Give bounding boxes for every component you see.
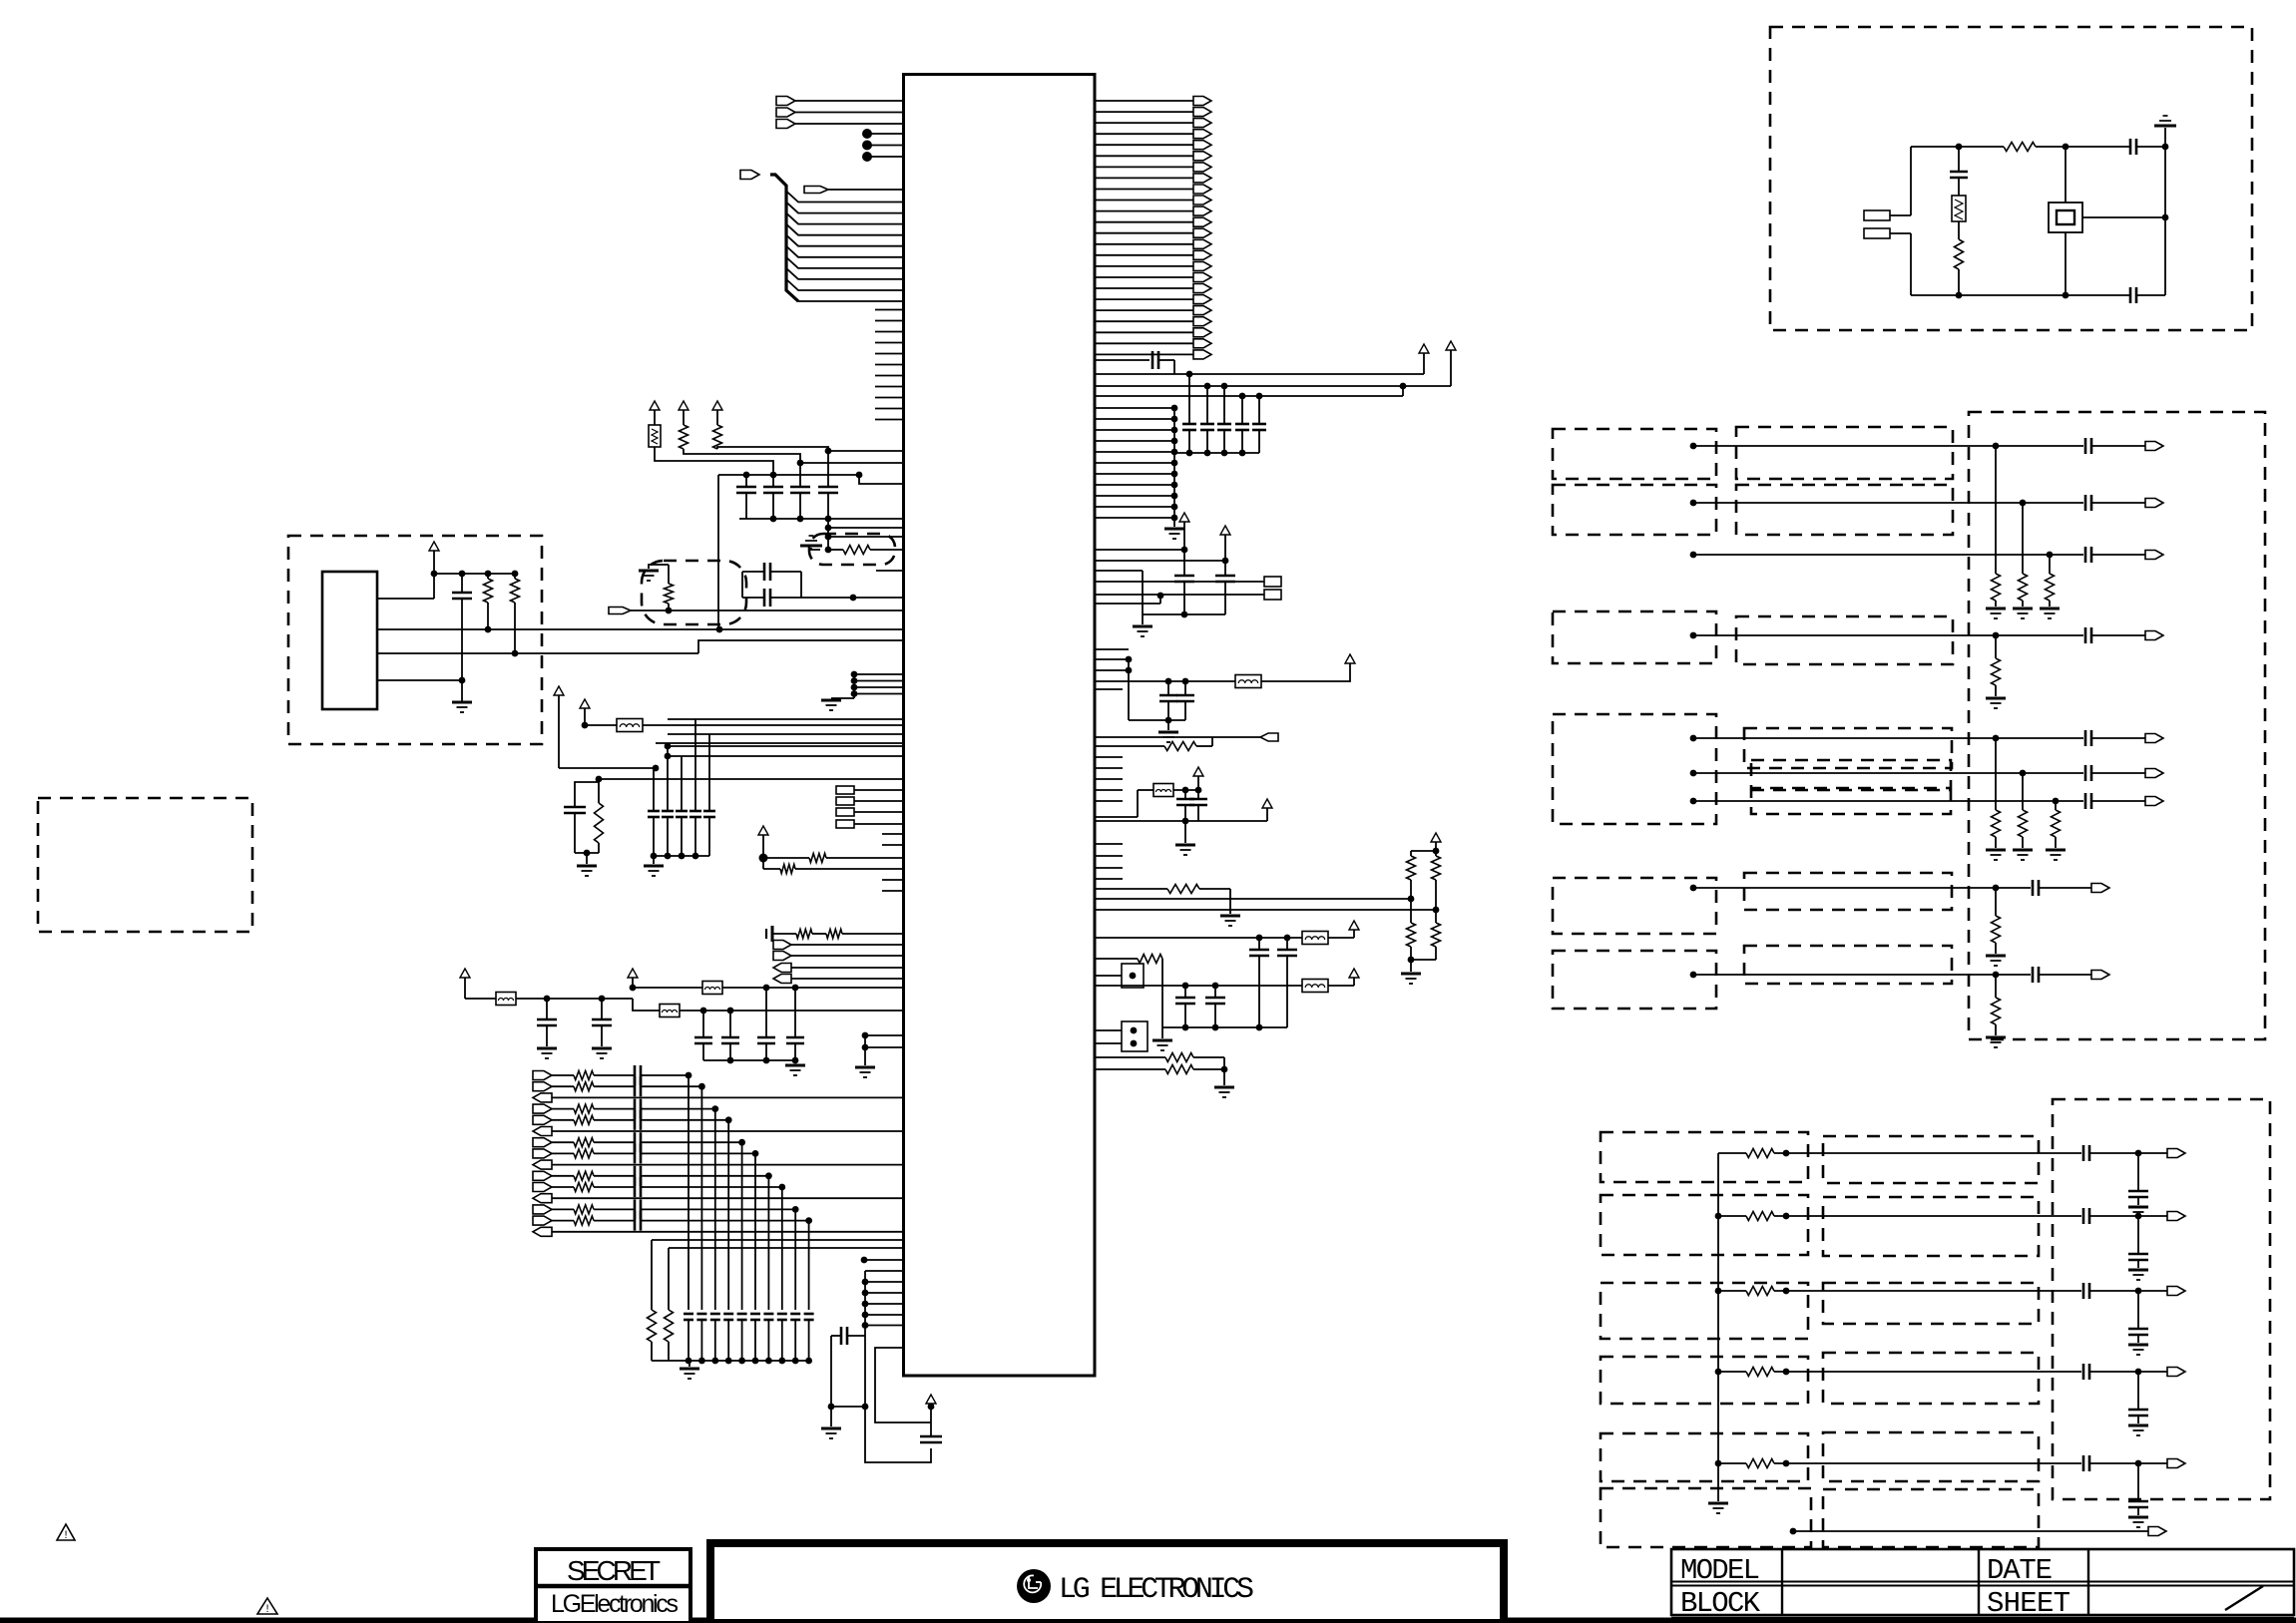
resistor R21 boxed (1952, 196, 1966, 221)
output terminal flag R18 (1095, 287, 1193, 289)
node dot (1956, 292, 1963, 299)
wire (2082, 216, 2165, 218)
resistor R2 (680, 425, 689, 449)
vcc arrow V6 (580, 699, 590, 708)
input terminal flag F1 (609, 608, 631, 614)
wire (644, 1186, 782, 1188)
output terminal flag (2167, 1212, 2185, 1221)
capacitor (2137, 1291, 2139, 1329)
series capacitor (2082, 1208, 2085, 1224)
terminal box BT6 (1264, 590, 1281, 600)
node dot (2135, 1460, 2142, 1467)
wire ic bottom tap (875, 1348, 931, 1422)
wire (741, 572, 743, 598)
node dot (666, 608, 673, 614)
resistor RP5 (552, 1119, 574, 1121)
wire (864, 1259, 904, 1261)
ic right gnd pin column (1171, 405, 1178, 412)
node dot (431, 571, 438, 578)
terminal box XT2 (1864, 228, 1890, 238)
terminal flag P7 (533, 1138, 552, 1147)
node dot (862, 1279, 869, 1286)
node dot (1182, 787, 1189, 794)
wire (1774, 1152, 2081, 1154)
dashed block BR L6 (1601, 1488, 1811, 1547)
capacitor C17 (1167, 681, 1169, 695)
wire (1328, 985, 1354, 987)
capacitor bank CB4 (1188, 374, 1190, 424)
series capacitor CP7 (594, 1141, 635, 1143)
node dot (727, 1008, 734, 1014)
resistor RB2 (669, 1247, 904, 1249)
terminal flag FL2 (773, 952, 791, 961)
node dot (1239, 393, 1246, 400)
series capacitor C6 (742, 571, 764, 573)
ground GND5 (653, 856, 655, 864)
vcc arrow V7 (758, 826, 768, 835)
resistor R10 (780, 865, 795, 874)
wire (1328, 937, 1354, 939)
series capacitor CP5 (594, 1119, 635, 1121)
node dot (743, 472, 750, 479)
terminal flag FL4 (773, 975, 791, 984)
dashed block audio L1 (1553, 429, 1716, 479)
net OUT5 (1690, 735, 1697, 742)
ferrite bead FB2 (465, 998, 496, 1000)
ic right stubs y846-881 (1095, 843, 1123, 845)
wire net y940 (1095, 937, 1302, 939)
ferrite bead FB3 (702, 982, 722, 995)
resistor RP14 (552, 1220, 574, 1222)
input terminal flag BUS (740, 171, 759, 180)
ic left stubs y836-893 (882, 833, 904, 835)
resistor RN3 (2049, 555, 2051, 574)
resistor R16 (1410, 899, 1412, 923)
node dot (1400, 383, 1407, 390)
resistor R20 (1095, 1068, 1165, 1070)
wire (644, 1152, 755, 1154)
wire net y823 (1095, 820, 1267, 822)
node column (825, 525, 832, 532)
ground (2128, 1344, 2148, 1347)
dashed block audio L3 (1553, 611, 1716, 663)
output terminal flag R7 (1095, 166, 1193, 168)
series capacitor C23 (2129, 287, 2132, 303)
node dot (928, 1404, 935, 1411)
series capacitor (2082, 1145, 2085, 1161)
wire (1411, 850, 1436, 852)
series capacitor C14 (1095, 359, 1149, 361)
wire (434, 573, 517, 575)
wire top rail (1911, 146, 2004, 148)
terminal flag FL3 (773, 964, 791, 973)
wire net y551 (1095, 549, 1184, 551)
dashed block crystal oscillator (1770, 27, 2252, 330)
node dot (2162, 144, 2169, 151)
terminal box BT4 (836, 820, 854, 828)
svg-text:!: ! (63, 1530, 70, 1542)
test point TP1 (1122, 964, 1144, 988)
wire net y819 (1095, 816, 1138, 818)
dashed block mid M2 (1736, 485, 1953, 535)
wire (655, 564, 669, 566)
wire bracket (864, 1271, 866, 1407)
node dot (828, 1404, 835, 1411)
capacitor C8 (564, 806, 586, 809)
wire (2089, 1215, 2167, 1217)
wire bus trunk (770, 175, 798, 301)
wire (644, 1175, 768, 1177)
output terminal flag R11 (1095, 210, 1193, 212)
test point TP2 (1122, 1021, 1148, 1051)
node dot (862, 1301, 869, 1308)
wire (864, 1035, 866, 1065)
resistor RN1 (1995, 446, 1997, 574)
wire (828, 450, 904, 452)
ferrite bead FB7 (1302, 932, 1328, 945)
node dot (1182, 678, 1189, 685)
wire (644, 1074, 689, 1076)
resistor R4 (487, 574, 489, 579)
vcc arrow V11 (1419, 344, 1429, 353)
vcc arrow V19 (1431, 833, 1441, 842)
series capacitor C12 (831, 1335, 840, 1337)
resistor RP11 (552, 1186, 574, 1188)
node dot (763, 985, 770, 992)
wire (1890, 232, 1911, 234)
wire (552, 1164, 904, 1166)
wire net y572 (1095, 570, 1143, 572)
node dot (1993, 972, 2000, 979)
resistor R8 (598, 782, 600, 803)
ground (2128, 1269, 2148, 1272)
dashed block BR M3 (1823, 1283, 2039, 1324)
ic ground pins (851, 671, 858, 678)
wire net (559, 767, 656, 769)
wire net y978 (1095, 975, 1122, 977)
node dot (861, 1257, 868, 1264)
wire net y901 (1095, 898, 1411, 900)
bus (703, 1059, 795, 1061)
ground (2128, 1206, 2148, 1209)
dashed block big right (1969, 412, 2265, 1039)
resistor RN6 (2022, 773, 2024, 810)
output terminal flag R16 (1095, 265, 1193, 267)
wire net SCL (377, 652, 698, 654)
ground (2128, 1516, 2148, 1519)
vcc arrow V21 (1349, 969, 1359, 978)
ground (1986, 955, 2006, 958)
wire net y375 (1095, 373, 1424, 375)
node dot (665, 743, 672, 750)
output terminal flag (2167, 1368, 2185, 1377)
ic left pin stubs group1 (875, 309, 904, 311)
wire net y745 (656, 742, 904, 744)
wire (865, 1325, 904, 1327)
ferrite bead FB8 (1302, 980, 1328, 993)
output terminal flag R9 (1095, 189, 1193, 191)
output terminal flag R5 (1095, 144, 1193, 146)
wire (655, 447, 773, 475)
node dot (862, 1322, 869, 1329)
crystal Y1 (2065, 147, 2066, 203)
output terminal flag R14 (1095, 243, 1193, 245)
wire net y672 (1095, 669, 1129, 671)
node dot (665, 753, 672, 760)
terminal box BT3 (836, 808, 854, 816)
ground GND4 (821, 699, 841, 702)
output terminal flag R8 (1095, 177, 1193, 179)
node dot (1433, 907, 1440, 914)
output terminal flag R2 (1095, 111, 1193, 113)
capacitor C19 (1184, 790, 1186, 799)
series capacitor CP4 (594, 1108, 635, 1110)
wire (1161, 959, 1163, 1027)
vcc arrow V2 (679, 401, 689, 410)
node dot (582, 722, 589, 729)
vcc arrow V12 (1446, 341, 1456, 350)
terminal flag P9 (533, 1160, 552, 1169)
ic ground pins 2 (862, 1032, 869, 1039)
terminal flag P10 (533, 1171, 552, 1180)
node dot (1783, 1460, 1790, 1467)
series cap C9 polarized (765, 929, 767, 939)
sheet slash (2225, 1586, 2263, 1610)
capacitor bank CB2 (702, 1011, 704, 1037)
resistor R6 (668, 565, 670, 584)
capacitor C20 (1197, 790, 1199, 799)
resistor R7 (828, 549, 843, 551)
capacitor C16 (1224, 561, 1226, 576)
wire (1261, 663, 1350, 681)
resistor R15 (1435, 851, 1437, 856)
resistor RP13 (552, 1208, 574, 1210)
node dot (2047, 552, 2054, 559)
dashed block BR L2 (1601, 1195, 1808, 1255)
net OUT3 (1690, 552, 1697, 559)
vcc arrow V17 (1193, 767, 1203, 776)
svg-text:SECRET: SECRET (567, 1555, 663, 1586)
net BR6 (1790, 1528, 1797, 1535)
wire (1128, 659, 1130, 720)
node dot (1783, 1369, 1790, 1376)
vcc arrow V20 (1349, 921, 1359, 930)
wire net y1013 (633, 999, 660, 1011)
bus ripper lines (786, 192, 904, 203)
wire net y661 (1095, 658, 1129, 660)
wire (865, 1303, 904, 1305)
wire net y736 (668, 733, 904, 735)
series capacitor C7 (742, 597, 764, 599)
node dot (1783, 1288, 1790, 1295)
resistor RP10 (552, 1175, 574, 1177)
net OUT7 (1690, 798, 1697, 805)
node dot (856, 472, 863, 479)
dashed block BR M1 (1823, 1136, 2039, 1183)
wire net y562 (1095, 560, 1225, 562)
resistor RP1 (552, 1074, 574, 1076)
dashed block mid M6 (1751, 790, 1951, 814)
wire (2089, 1371, 2167, 1373)
capacitor C2 (772, 475, 774, 487)
wire (552, 1197, 904, 1199)
wire net y990 (633, 987, 702, 989)
ground GND18 (1410, 960, 1412, 972)
resistor RN7 (2055, 801, 2057, 810)
input terminal flag TL3 (776, 120, 795, 129)
wire stub y572 (876, 570, 904, 572)
node dot (2135, 1288, 2142, 1295)
resistor R1 boxed (649, 425, 661, 447)
node dot L2 (862, 141, 872, 151)
dashed block mid M3 (1736, 616, 1953, 664)
wire (1173, 408, 1175, 527)
wire (830, 1336, 832, 1407)
output terminal flag R6 (1095, 155, 1193, 157)
resistor R23 (2004, 143, 2036, 152)
terminal flag P6 (533, 1127, 552, 1136)
wire (684, 449, 800, 463)
node dot (485, 626, 492, 633)
ground (1986, 1036, 2006, 1039)
wire net y781 (599, 778, 904, 780)
ground GND12 (830, 1407, 832, 1426)
dashed block audio L4 (1553, 714, 1716, 824)
resistor RN2 (2022, 503, 2024, 574)
resistor R19 (1095, 1056, 1165, 1058)
wire (827, 519, 829, 550)
ground (1986, 608, 2006, 610)
ferrite bead FB5 (1235, 675, 1261, 688)
ground GND7 (537, 1047, 557, 1050)
dashed block reserved area (38, 798, 252, 932)
wire net y739 (1095, 736, 1260, 738)
terminal flag FL1 (773, 941, 791, 950)
capacitor C3 (799, 463, 801, 487)
ground GND20 (1214, 1086, 1234, 1089)
wire net y476 bus (718, 474, 859, 476)
capacitor (2137, 1216, 2139, 1254)
node dot (653, 765, 660, 772)
vcc arrow V3 (712, 401, 722, 410)
wire net (631, 609, 904, 611)
node dot (512, 650, 519, 657)
node dot L1 (862, 129, 872, 139)
wire net y651 (1095, 648, 1129, 650)
capacitor C11 (601, 999, 603, 1019)
ground GND11 (689, 1361, 690, 1367)
vertical bus to capacitor bank (686, 1072, 692, 1079)
wire riser (717, 475, 719, 629)
wire (2089, 1290, 2167, 1292)
resistor R3 (713, 425, 722, 449)
output terminal flag (2167, 1459, 2185, 1468)
ground GND17 (1220, 915, 1240, 918)
capacitor (2137, 1463, 2139, 1501)
node dot (862, 1404, 869, 1411)
secret box (536, 1549, 690, 1623)
terminal flag P8 (533, 1149, 552, 1158)
terminal flag P3 (533, 1093, 552, 1102)
node dot (2135, 1150, 2142, 1157)
wire net SDA (377, 628, 904, 630)
dashed block audio L2 (1553, 485, 1716, 535)
node dot (2020, 770, 2027, 777)
wire net y748 (668, 745, 904, 747)
capacitor (2137, 1153, 2139, 1191)
series capacitor CP8 (594, 1152, 635, 1154)
wire net y605 (1095, 603, 1160, 605)
dashed block BR L1 (1601, 1132, 1808, 1182)
node dot (1783, 1213, 1790, 1220)
ground GND9 (794, 1060, 796, 1063)
node dot (512, 571, 519, 578)
ferrite bead FB4 (660, 1005, 680, 1017)
node dot (1195, 787, 1202, 794)
output terminal flag R1 (1095, 100, 1193, 102)
net BR4 (1715, 1369, 1722, 1376)
wire (865, 1281, 904, 1283)
node dot (825, 448, 832, 455)
wire (2089, 1462, 2167, 1464)
ground GND10 (855, 1066, 875, 1069)
page bottom bar (0, 1618, 2296, 1623)
resistor RN8 (1995, 888, 1997, 916)
node dot (459, 677, 466, 684)
svg-text:BLOCK: BLOCK (1680, 1587, 1761, 1620)
bus (1162, 1026, 1287, 1028)
series capacitor (2082, 1283, 2085, 1299)
logo box (710, 1543, 1504, 1623)
wire (644, 1220, 809, 1222)
node dot (1956, 144, 1963, 151)
ferrite bead FB1 (617, 719, 643, 732)
svg-text:!: ! (264, 1604, 271, 1616)
wire (1774, 1290, 2081, 1292)
node dot (2063, 292, 2069, 299)
node dot (1433, 848, 1440, 855)
node dot (1408, 957, 1415, 964)
wire stub y691 (1095, 688, 1123, 690)
net BR2 (1715, 1213, 1722, 1220)
vcc arrow V13 (1179, 513, 1189, 522)
wire (644, 1085, 701, 1087)
capacitor C21 (1958, 147, 1960, 172)
wire (377, 598, 434, 600)
series capacitor CP14 (594, 1220, 635, 1222)
node dot (850, 595, 857, 602)
ground GND6 (586, 853, 588, 864)
wire (377, 679, 462, 681)
wire pin y485 (859, 475, 904, 484)
wire (865, 1314, 904, 1316)
vertical bus BR (1717, 1153, 1719, 1501)
node dot (2020, 500, 2027, 507)
input terminal flag A0 (804, 187, 828, 194)
wire (853, 597, 904, 599)
wire (1774, 1215, 2081, 1217)
series capacitor CP13 (594, 1208, 635, 1210)
ground (2013, 849, 2033, 852)
node dot (770, 516, 777, 523)
series capacitor C22 (2129, 139, 2132, 155)
output terminal flag R20 (1095, 309, 1193, 311)
svg-text:LG ELECTRONICS: LG ELECTRONICS (1059, 1573, 1254, 1607)
node dot (862, 1312, 869, 1319)
capacitor (2137, 1372, 2139, 1410)
node dot (1165, 678, 1172, 685)
wire net y583 (1095, 581, 1264, 583)
